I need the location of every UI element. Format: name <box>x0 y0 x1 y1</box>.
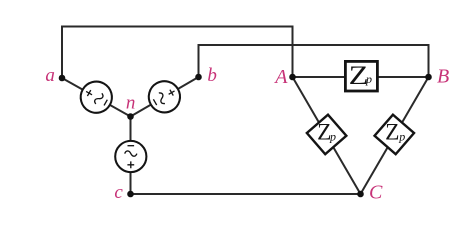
svg-text:A: A <box>273 66 288 88</box>
svg-text:p: p <box>398 129 405 143</box>
svg-text:b: b <box>207 65 217 86</box>
svg-text:Z: Z <box>385 119 399 145</box>
source Vbn (right) <box>143 75 186 118</box>
svg-text:p: p <box>329 129 336 143</box>
wire n-c <box>130 117 132 195</box>
node B <box>425 74 432 81</box>
svg-text:a: a <box>45 65 55 86</box>
source Vcn (bottom) <box>115 141 146 172</box>
node c <box>127 191 134 198</box>
svg-text:n: n <box>126 92 136 113</box>
wire c-C <box>131 193 361 195</box>
wire b loop <box>199 45 429 77</box>
svg-text:C: C <box>369 182 383 204</box>
source Van (left) <box>75 76 118 119</box>
svg-text:c: c <box>114 182 123 203</box>
node n <box>127 113 134 120</box>
wire a top loop <box>62 27 293 79</box>
impedance Zp box A-B <box>345 61 377 91</box>
wire a-n <box>62 78 131 117</box>
impedance Zp diamond B-C <box>375 115 415 155</box>
node A <box>289 74 296 81</box>
svg-text:p: p <box>365 72 372 86</box>
wire B-C <box>361 77 429 194</box>
node b <box>195 74 202 81</box>
node a <box>59 75 66 82</box>
impedance Zp diamond A-C <box>307 115 347 155</box>
node C <box>357 191 364 198</box>
svg-text:B: B <box>437 66 449 88</box>
wire n-b <box>131 77 199 117</box>
wire A-B <box>293 76 429 78</box>
wire A-C <box>293 77 361 194</box>
